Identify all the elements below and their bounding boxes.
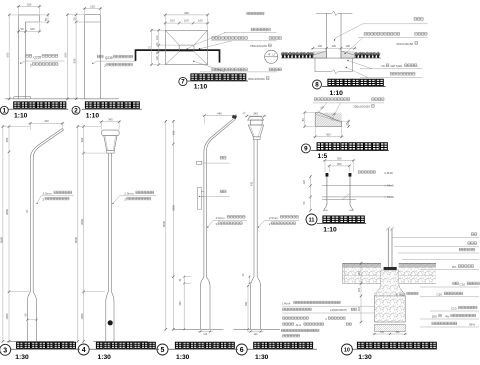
lamp4 pole [107, 153, 109, 292]
ground line lamps 3 [7, 340, 74, 342]
lawn lamp 2 dim line 100 [83, 8, 103, 10]
stone top bevel second line [315, 114, 338, 121]
lamp3 arm tip cut [63, 128, 64, 130]
lamp5 head fixture at arm tip [232, 115, 237, 120]
note: cement bonded edging / custom shaped lower [212, 68, 248, 71]
svg-text:C20: C20 [451, 307, 457, 311]
lawn lamp 1 head dims 50 100 ext lines [25, 23, 27, 33]
svg-text:100: 100 [90, 5, 95, 9]
svg-text:100: 100 [198, 19, 203, 23]
note: cement bonded edging / custom shaped [364, 33, 400, 36]
svg-text:250x100x50: 250x100x50 [353, 105, 370, 109]
title underline 5 [168, 348, 238, 350]
lamp6 leader line [259, 220, 300, 227]
svg-text:20: 20 [381, 64, 385, 68]
lamp5 note: banner flag [220, 190, 226, 193]
lamp10 pedestal outline [375, 270, 381, 296]
anchor bolt left foot [323, 205, 328, 210]
title underline 7 [187, 80, 249, 82]
lamp6 head neck [253, 137, 260, 140]
plan diagonal corner lines [165, 30, 179, 45]
svg-text:Φ50: Φ50 [399, 292, 405, 296]
svg-text:140: 140 [203, 333, 208, 336]
stone note: cement bonded edging / custom shaped [314, 98, 350, 101]
note: lamp position indication [251, 28, 270, 31]
anchor bolt right foot [349, 205, 354, 210]
lamp5 leader line [208, 220, 247, 227]
svg-text:250: 250 [337, 162, 342, 166]
svg-text:50: 50 [44, 18, 48, 22]
svg-text:11: 11 [309, 217, 315, 223]
stone right dim 25 [348, 120, 350, 128]
lamp5 left inner dim line [172, 120, 174, 331]
title underline 4 [90, 348, 160, 350]
lamp6 leader arrow [258, 226, 259, 227]
plan leader dot on conduit [199, 48, 201, 50]
svg-text:4%: 4% [445, 315, 450, 319]
title underline 6 [247, 348, 317, 350]
ground line lamp 5 [173, 328, 223, 330]
svg-text:100: 100 [155, 55, 159, 60]
svg-text:150: 150 [358, 271, 361, 276]
lamp4 top dim 345 [99, 121, 121, 123]
lamp10 pavement concrete band left [343, 268, 382, 284]
svg-text:3000: 3000 [80, 219, 84, 225]
note underline existing foundation [360, 77, 423, 79]
lamp4 leader line [113, 196, 156, 204]
lamp10 left note row 6 [283, 335, 300, 337]
lamp10 left note row 2: cable conduit / steel plate [283, 308, 312, 310]
title circle 6 [236, 344, 247, 355]
note underline mortar [360, 68, 423, 70]
lamp10 pole [387, 228, 389, 269]
lamp10 footing block [375, 296, 406, 322]
section 8 right stone trapezoid [341, 51, 355, 58]
section 8 top break line [316, 11, 353, 15]
svg-text:3000: 3000 [5, 209, 9, 215]
ground line lamp 6 [233, 328, 280, 330]
svg-text:500: 500 [5, 137, 9, 142]
svg-text:∟64x6: ∟64x6 [384, 195, 394, 199]
cage left dim line [310, 175, 312, 211]
svg-text:1:30: 1:30 [98, 354, 112, 360]
svg-text:∟64x6: ∟64x6 [384, 184, 394, 188]
title text 6 [254, 342, 313, 348]
section 8 left shrub row [281, 52, 314, 58]
lamp3 curved arm outline [30, 128, 62, 291]
note underline [358, 37, 428, 39]
lamp5 pole base flare [200, 277, 204, 330]
lawn lamp 2 left inner dim line 50 554 [75, 14, 77, 101]
svg-text:1500: 1500 [5, 313, 9, 319]
lawn lamp 2 note line 1: steel plate Q235 galvanized [97, 55, 103, 58]
lamp6 head cap trapezoid [248, 117, 264, 120]
plan inner rectangle [179, 45, 194, 52]
svg-text:1:30: 1:30 [176, 354, 190, 360]
lamp4 leader arrow [112, 203, 113, 204]
lamp4 head body trapezoid [104, 136, 117, 151]
svg-text:120: 120 [358, 287, 361, 292]
note underline grass [363, 23, 428, 25]
title circle 3 [0, 344, 11, 355]
lamp10 pavement hatch band left [338, 263, 384, 267]
lawn lamp 1 note line 1: steel plate Q235 galvanized [26, 55, 32, 58]
svg-text:2.5mm: 2.5mm [269, 216, 279, 220]
svg-text:100: 100 [318, 44, 323, 48]
lamp10 pavement surface line right [399, 262, 436, 264]
lawn lamp 2 left outer dim line 600 [67, 14, 69, 101]
svg-text:1:10: 1:10 [194, 83, 208, 90]
title circle 10 [341, 344, 352, 355]
lamp6 head box [250, 120, 262, 125]
svg-text:250x100x50: 250x100x50 [250, 44, 267, 48]
section 8 ground line [281, 57, 381, 59]
svg-text:4-M16: 4-M16 [384, 171, 393, 175]
section 8 leader from column to planting note [335, 24, 364, 40]
lawn lamp 2 leader line [93, 61, 136, 63]
stone note underline [313, 102, 384, 104]
lamp4 left inner dim line [83, 125, 85, 342]
detail reference bubble [265, 50, 278, 63]
svg-text:3: 3 [3, 347, 7, 354]
lamp5 spotlight bracket [197, 161, 202, 164]
lamp5 leader arrow [207, 226, 208, 227]
svg-text:C30: C30 [437, 292, 443, 296]
lamp10 gravel cushion strip [375, 325, 406, 332]
lamp10 pavement surface line left [343, 262, 382, 264]
svg-text:50: 50 [72, 17, 76, 21]
svg-text:1:30: 1:30 [255, 354, 269, 360]
title text 5 [175, 342, 234, 348]
svg-text:2: 2 [30, 63, 32, 67]
svg-text:1:10: 1:10 [86, 113, 100, 120]
lamp3 left outer dim 6500 [2, 125, 4, 342]
svg-text:1:10: 1:10 [330, 90, 344, 97]
ground line under lawn lamps [5, 98, 119, 100]
title underline 10 [353, 348, 438, 350]
lamp10 right leader: pole [392, 237, 479, 239]
lamp10 note: compacted soil 95% [432, 322, 457, 325]
section 8 right shrub row [355, 52, 381, 58]
svg-text:95%: 95% [469, 322, 475, 326]
svg-text:440: 440 [217, 111, 222, 115]
lamp10 right leader line 4 [402, 259, 479, 261]
svg-text:2: 2 [104, 64, 106, 68]
svg-text:8%: 8% [452, 265, 457, 269]
plan leader dot lower [193, 61, 194, 62]
lawn lamp 1 base plate [14, 97, 31, 99]
lamp3 base small dim ticks [27, 319, 36, 321]
section 8 foundation bottom break line [315, 70, 353, 74]
svg-text:100: 100 [332, 44, 337, 48]
lamp6 pole [253, 140, 255, 277]
lawn lamp 1 leader line [21, 61, 65, 63]
lawn lamp 2 body rectangle [85, 15, 101, 99]
svg-text:100: 100 [346, 44, 351, 48]
section 8 leader to mortar note [347, 60, 348, 61]
lamp10 left note row 5 [281, 329, 319, 331]
title text 4 [96, 342, 155, 348]
conduit thick line with end hooks [136, 50, 220, 63]
svg-text:2.5mm: 2.5mm [216, 216, 226, 220]
lamp3 pole base flare [27, 292, 30, 342]
cage diagonal brace [343, 193, 351, 200]
stone bottom dim 500 [313, 136, 344, 138]
svg-text:4: 4 [82, 347, 86, 354]
svg-text:1: 1 [3, 108, 7, 115]
title circle 1 [0, 106, 8, 114]
svg-text:8: 8 [315, 82, 319, 89]
svg-text:5: 5 [161, 347, 165, 354]
svg-text:1:30: 1:30 [358, 354, 372, 360]
section 8 left stone trapezoid [313, 51, 327, 58]
lamp5 left outer dim 6500 [165, 120, 167, 331]
cage top dim 350 [323, 159, 355, 161]
title text 8 [328, 79, 383, 85]
title circle 11 [306, 214, 317, 225]
lamp6 side dim 500 [247, 285, 249, 331]
lamp10 left note row 3 [283, 317, 309, 319]
svg-text:345: 345 [108, 118, 113, 122]
lamp6 pole base flare [251, 277, 254, 330]
lawn lamp 2 head joint line [85, 21, 101, 23]
note underline 2 [211, 40, 277, 42]
title text 10 [357, 342, 436, 348]
svg-text:600: 600 [5, 52, 9, 57]
svg-text:4: 4 [268, 52, 270, 56]
svg-text:2.5mm: 2.5mm [43, 191, 53, 195]
anchor bolt left shaft [326, 177, 328, 205]
lamp4 access door dot [108, 320, 113, 325]
lawn lamp 2 dim 100 ext lines [84, 7, 86, 14]
title underline 9 [311, 150, 389, 152]
svg-text:6: 6 [240, 347, 244, 354]
title underline 1 [8, 108, 68, 110]
lamp3 leader arrow [37, 203, 38, 204]
section 8 leader to stone note [345, 53, 346, 54]
svg-text:1:30: 1:30 [15, 354, 29, 360]
title text 7 [191, 74, 246, 80]
lawn lamp 1 left dim line 600 [8, 14, 10, 101]
plan dim line 100 100 100 [163, 22, 209, 24]
svg-text:-: - [271, 59, 272, 63]
svg-text:300x100x50: 300x100x50 [248, 77, 265, 81]
stone slope dim tick lines [317, 110, 341, 123]
stone left dim 85 [304, 111, 306, 127]
svg-text:300: 300 [184, 11, 189, 15]
lamp10 left note underline 1 [282, 305, 374, 307]
svg-text:100: 100 [184, 19, 189, 23]
svg-text:6500: 6500 [0, 237, 3, 243]
svg-text:1:10: 1:10 [14, 113, 28, 120]
svg-text:9: 9 [304, 146, 308, 153]
section 8 leader to existing foundation note [346, 67, 347, 68]
lamp4 head cap [102, 130, 119, 136]
svg-text:50: 50 [20, 27, 24, 31]
stone hatch [301, 113, 354, 127]
stone leader diagonals [319, 103, 327, 112]
cage note: embedded anchor bolts 4-M16 [358, 171, 375, 173]
svg-text:C30: C30 [460, 282, 466, 286]
title text 3 [17, 342, 76, 348]
anchor bolt right head [349, 173, 352, 177]
plan leader dot in inner rect [187, 48, 188, 49]
lawn lamp 2 leader arrow [92, 63, 93, 64]
title text 11 [323, 216, 364, 223]
svg-text:345: 345 [253, 112, 258, 116]
plan left dim outer line [151, 29, 153, 66]
note: grass planting [414, 18, 423, 21]
svg-text:6500: 6500 [74, 237, 78, 243]
lawn lamp 1 body outline [19, 15, 40, 99]
plan left dim inner line [158, 29, 160, 66]
svg-text:500: 500 [179, 301, 182, 306]
title underline 2 [82, 108, 142, 110]
anchor bolt right shaft [349, 177, 351, 205]
svg-text:100: 100 [170, 19, 175, 23]
lamp10 flange plate [384, 267, 397, 270]
title circle 5 [157, 344, 168, 355]
lamp10 right leader: pole flange [394, 246, 479, 248]
lamp10 pavement concrete band right [399, 268, 436, 284]
lamp10 right leader: finish surface [398, 252, 479, 254]
svg-text:350: 350 [337, 156, 342, 160]
svg-text:6500: 6500 [162, 221, 166, 227]
svg-text:600: 600 [64, 52, 68, 57]
note: lamp column base finish [247, 12, 264, 14]
title circle 2 [72, 106, 80, 114]
section 8 column sides [326, 13, 328, 58]
svg-text:500: 500 [172, 130, 176, 135]
lamp5 note: spotlight [220, 156, 226, 159]
stone profile outline [315, 113, 341, 127]
lamp10 pavement hatch band right [395, 263, 440, 267]
svg-text:120: 120 [302, 179, 306, 184]
svg-text:Q235: Q235 [105, 56, 113, 60]
title underline 11 [317, 223, 366, 225]
note: existing lamp foundation [390, 73, 415, 76]
cage dim ext lines [324, 161, 326, 172]
lamp10 left note underline 2 [282, 312, 374, 314]
lawn lamp 1 head dim line 50 100 [17, 30, 42, 32]
plan top dim 300 ext lines [164, 14, 166, 30]
title text 2 [85, 102, 139, 108]
lawn lamp 1 dim 150 extension lines [18, 5, 20, 14]
lamp6 bottom dim 140 [248, 331, 264, 333]
lawn lamp 1 dim line 150 [17, 5, 42, 7]
svg-text:100: 100 [30, 27, 35, 31]
lamp5 top dim 440 [202, 115, 237, 117]
lamp10 anchor bolts [384, 270, 386, 294]
plan leader line to lower right note [194, 61, 225, 72]
lamp4 left outer dim 6500 [77, 125, 79, 342]
svg-text:L250X250X5: L250X250X5 [330, 308, 347, 312]
svg-text:400: 400 [251, 181, 254, 186]
lamp4 head inner lines [105, 136, 115, 151]
svg-text:4-: 4- [396, 292, 399, 296]
lamp3 left inner dim line [8, 125, 10, 342]
svg-text:10: 10 [344, 347, 350, 353]
lawn lamp 1 right dim 50 ext lines [40, 14, 50, 16]
section 8 foundation outline [314, 58, 316, 72]
cage rail 2 [322, 196, 392, 198]
cage top dim 250 [327, 165, 351, 167]
lamp6 head body trapezoid [248, 125, 263, 137]
ground line lamp 4 [93, 340, 148, 342]
lamp10 pavement left cut edge [342, 263, 344, 283]
svg-text:200: 200 [432, 315, 437, 319]
svg-text:2: 2 [74, 108, 78, 115]
cage rail 3 short [322, 199, 356, 201]
lamp4 head neck [107, 150, 115, 153]
title text 9 [317, 143, 387, 150]
svg-text:500: 500 [80, 137, 84, 142]
title circle 4 [78, 344, 89, 355]
svg-text:250x100x50: 250x100x50 [396, 42, 413, 46]
title circle 9 [301, 144, 310, 153]
lamp5 arm outline [204, 118, 235, 277]
svg-text:300: 300 [358, 306, 361, 311]
lamp10 pedestal stipple [375, 270, 405, 296]
svg-text:L40x4: L40x4 [282, 301, 290, 305]
lamp10 bottom dim [373, 333, 408, 335]
title circle 8 [313, 80, 322, 89]
section 8 dim line 100 100 100 [311, 47, 357, 49]
lamp10 left note row 4 [283, 323, 294, 325]
title circle 7 [179, 77, 187, 85]
svg-text:500: 500 [326, 133, 331, 137]
svg-text:Q235: Q235 [33, 55, 41, 59]
lamp5 banner leader [199, 196, 200, 197]
svg-text:1:10: 1:10 [323, 226, 337, 233]
lamp5 banner signboard [198, 187, 202, 209]
svg-text:7: 7 [181, 79, 185, 86]
cage rail 1 [322, 185, 392, 187]
lamp5 spotlight leader [202, 162, 230, 164]
svg-text:150: 150 [27, 3, 32, 7]
plan outer square [165, 30, 207, 64]
lamp5 flare dim 70 and base dim 500 [183, 276, 185, 331]
svg-text:554: 554 [72, 58, 76, 63]
note underline [224, 31, 277, 33]
svg-text:2900: 2900 [172, 205, 176, 211]
lamp3 top dim 440 [28, 122, 64, 124]
svg-text:140: 140 [254, 333, 259, 336]
note underline 3 [200, 71, 277, 73]
note: cement bonded edging / custom shaped [212, 37, 248, 40]
plan leader line to upper right note [187, 33, 225, 49]
title underline 8 [322, 86, 386, 88]
lamp5 banner connectors [201, 191, 204, 193]
lamp3 leader line [37, 196, 74, 204]
svg-text:100: 100 [155, 35, 159, 40]
plan dim line 300 [163, 14, 209, 16]
title text 1 [14, 102, 66, 108]
lawn lamp 1 right dim line 50 [47, 13, 49, 24]
lamp10 note: cast C30 concrete base [453, 282, 459, 285]
lamp6 flare dim 70 [249, 276, 251, 285]
svg-text:440: 440 [44, 119, 49, 123]
lawn lamp 1 leader arrow [20, 63, 21, 64]
svg-text:1500: 1500 [80, 313, 84, 319]
lamp6 top dim 345 [245, 115, 266, 117]
svg-text:1:5: 1:5 [318, 153, 328, 160]
svg-text:500: 500 [245, 301, 248, 306]
title underline 3 [11, 348, 81, 350]
anchor bolt left head [326, 173, 329, 177]
lamp10 pole top break mark [386, 227, 394, 231]
lamp10 left dim chain [360, 262, 362, 323]
